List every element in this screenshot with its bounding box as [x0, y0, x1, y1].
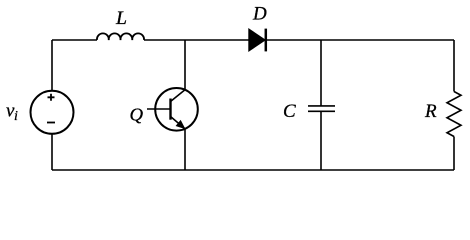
svg-text:L: L	[115, 8, 127, 29]
svg-text:Q: Q	[130, 105, 144, 125]
svg-text:C: C	[283, 101, 296, 122]
svg-text:R: R	[424, 101, 437, 122]
svg-text:D: D	[252, 4, 267, 25]
